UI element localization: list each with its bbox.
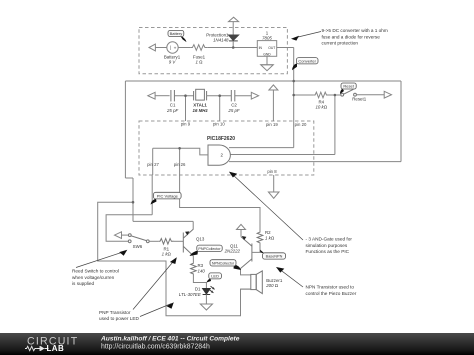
- svg-text:pin 9: pin 9: [181, 122, 191, 127]
- svg-text:R2: R2: [265, 230, 271, 235]
- svg-text:XTAL1: XTAL1: [193, 103, 207, 108]
- svg-text:140: 140: [198, 268, 206, 273]
- svg-text:LTL-307EE: LTL-307EE: [179, 292, 201, 297]
- svg-text:OUT: OUT: [268, 46, 275, 50]
- svg-text:PIC18F2620: PIC18F2620: [207, 136, 235, 142]
- svg-text:200 Ω: 200 Ω: [265, 283, 278, 288]
- svg-text:Buzzer1: Buzzer1: [266, 278, 283, 283]
- svg-text:when voltage/curren: when voltage/curren: [72, 275, 115, 280]
- svg-text:fuse and a diode for reverse: fuse and a diode for reverse: [322, 34, 381, 39]
- svg-text:Converter: Converter: [298, 58, 316, 63]
- svg-text:pin 26: pin 26: [174, 162, 186, 167]
- svg-text:pin 20: pin 20: [295, 122, 307, 127]
- svg-text:25 pF: 25 pF: [166, 108, 179, 113]
- svg-text:LED: LED: [211, 274, 219, 279]
- svg-text:BaseNPN: BaseNPN: [266, 255, 283, 259]
- svg-text:1 kΩ: 1 kΩ: [265, 236, 274, 241]
- svg-text:+: +: [174, 46, 177, 51]
- svg-text:R3: R3: [198, 263, 204, 268]
- svg-text:1 kΩ: 1 kΩ: [162, 252, 171, 257]
- svg-text:Reed Switch to control: Reed Switch to control: [72, 269, 119, 274]
- svg-text:NPNCollector: NPNCollector: [212, 262, 235, 266]
- svg-text:C1: C1: [170, 103, 176, 108]
- svg-text:7805: 7805: [262, 36, 272, 41]
- svg-text:PIC Voltage: PIC Voltage: [157, 193, 179, 198]
- svg-text:used to power LED: used to power LED: [99, 316, 139, 321]
- svg-text:NPN Transistor used to: NPN Transistor used to: [306, 285, 355, 290]
- svg-text:pin 19: pin 19: [266, 122, 278, 127]
- svg-text:|: |: [170, 45, 171, 50]
- svg-text:GND: GND: [263, 52, 271, 56]
- svg-text:PNPCollector: PNPCollector: [198, 247, 221, 251]
- svg-text:IN: IN: [259, 46, 263, 50]
- svg-text:16 MHz: 16 MHz: [193, 108, 209, 113]
- svg-text:- 3 AND-Gate used for: - 3 AND-Gate used for: [306, 237, 353, 242]
- svg-text:Reset: Reset: [343, 84, 354, 89]
- svg-text:9->5 DC converter with a 1 ohm: 9->5 DC converter with a 1 ohm: [322, 28, 388, 33]
- svg-text:LAB: LAB: [47, 344, 65, 353]
- svg-text:is supplied: is supplied: [72, 281, 95, 286]
- svg-text:SW6: SW6: [133, 244, 143, 249]
- svg-text:pin 8: pin 8: [267, 169, 277, 174]
- svg-text:current protection: current protection: [322, 41, 359, 46]
- svg-text:Austin.kallhoff / ECE 401 -- C: Austin.kallhoff / ECE 401 -- Circuit Com…: [100, 335, 240, 342]
- svg-text:2N2222: 2N2222: [224, 248, 241, 253]
- svg-text:Functions as the PIC: Functions as the PIC: [306, 249, 350, 254]
- svg-text:pin 27: pin 27: [147, 162, 159, 167]
- svg-text:http://circuitlab.com/c639rbk8: http://circuitlab.com/c639rbk87284h: [101, 344, 210, 351]
- svg-text:C2: C2: [231, 103, 237, 108]
- svg-text:25 pF: 25 pF: [227, 108, 240, 113]
- svg-text:10 kΩ: 10 kΩ: [315, 105, 327, 110]
- svg-text:pin 10: pin 10: [213, 122, 225, 127]
- svg-text:PNP Transistor: PNP Transistor: [99, 310, 131, 315]
- svg-text:Q13: Q13: [196, 236, 205, 241]
- svg-text:1 Ω: 1 Ω: [195, 60, 202, 65]
- svg-text:9 V: 9 V: [169, 60, 177, 65]
- svg-text:Battery: Battery: [170, 31, 183, 36]
- svg-text:Reset1: Reset1: [352, 97, 366, 102]
- svg-text:1N4148: 1N4148: [213, 37, 229, 42]
- svg-text:2: 2: [220, 153, 223, 158]
- svg-text:control the Piezo Buzzer: control the Piezo Buzzer: [306, 291, 357, 296]
- svg-text:simulation purposes: simulation purposes: [306, 243, 348, 248]
